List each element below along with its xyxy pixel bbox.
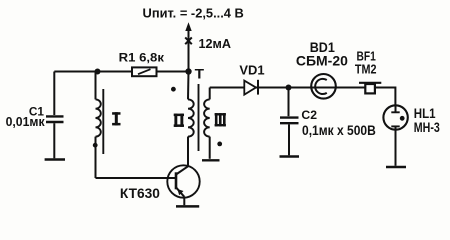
- label III (roman numeral): [215, 113, 226, 126]
- capacitor C1: [46, 72, 64, 159]
- wire winding III to VD1: [210, 87, 244, 89]
- transformer T winding II: [188, 72, 194, 167]
- svg-text:HL1: HL1: [414, 106, 436, 121]
- svg-text:СБМ-20: СБМ-20: [296, 54, 348, 69]
- svg-text:МН-3: МН-3: [414, 120, 440, 135]
- transformer core line (winding I): [102, 89, 104, 154]
- transformer T winding I: [96, 72, 101, 179]
- wire BF1 to HL1: [375, 88, 396, 106]
- supply wire with arrow: [185, 22, 191, 71]
- node A junction dot (top rail / winding I): [95, 69, 101, 75]
- C2 bottom terminal bar: [280, 155, 300, 157]
- telephone BF1: [359, 83, 381, 94]
- svg-text:Uпит. = -2,5...4 В: Uпит. = -2,5...4 В: [143, 6, 244, 21]
- svg-text:ТМ2: ТМ2: [355, 62, 377, 77]
- svg-text:0,1мк x 500В: 0,1мк x 500В: [302, 123, 376, 138]
- resistor R1: [132, 67, 157, 76]
- HL1 bottom terminal bar: [386, 166, 406, 168]
- winding I phase dot: [93, 143, 98, 148]
- current-break mark x (12мА measuring point): [185, 37, 192, 44]
- svg-text:12мА: 12мА: [199, 37, 232, 51]
- svg-text:КТ630: КТ630: [120, 186, 160, 201]
- node T junction dot: [185, 68, 191, 74]
- svg-text:T: T: [195, 66, 205, 81]
- emitter ground bar: [176, 205, 199, 208]
- winding III phase dot: [217, 142, 222, 147]
- wire HL1 to terminal: [395, 130, 397, 166]
- label I (roman numeral): [112, 112, 120, 125]
- transformer core line (II/III): [198, 84, 200, 151]
- node B junction dot (C2 tap): [286, 85, 292, 91]
- winding II phase dot: [171, 87, 176, 92]
- capacitor C2: [280, 88, 299, 156]
- C1 bottom terminal bar: [45, 158, 65, 161]
- svg-text:C2: C2: [301, 108, 317, 122]
- geiger tube BD1: [311, 74, 336, 99]
- neon lamp HL1: [383, 105, 407, 129]
- winding III bottom terminal bar: [202, 159, 220, 161]
- svg-text:R1 6,8к: R1 6,8к: [119, 51, 165, 65]
- transformer T winding III: [204, 88, 210, 159]
- wire BD1 to BF1: [336, 87, 365, 89]
- diode VD1: [244, 80, 258, 95]
- wire top rail from C1 to node T: [54, 71, 188, 73]
- transistor VT1 КТ630: [167, 137, 199, 206]
- svg-text:VD1: VD1: [239, 64, 264, 78]
- wire VD1 to BD1: [256, 87, 312, 89]
- wire winding I to base of VT1: [96, 177, 177, 179]
- svg-text:0,01мк: 0,01мк: [6, 115, 46, 129]
- label II (roman numeral): [174, 114, 184, 127]
